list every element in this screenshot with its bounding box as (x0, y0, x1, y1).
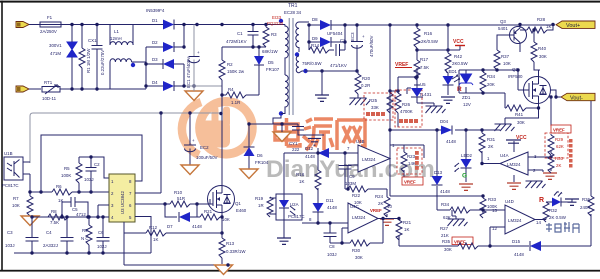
hatched ground Q2 (495, 124, 515, 131)
svg-text:471/1KV: 471/1KV (330, 63, 347, 68)
divider column R29/R30 (549, 95, 552, 171)
LED3 (539, 191, 572, 207)
svg-text:R18: R18 (296, 172, 305, 177)
svg-text:2A/250V: 2A/250V (40, 29, 57, 34)
svg-text:4148: 4148 (514, 252, 524, 257)
svg-text:D9: D9 (312, 36, 318, 41)
svg-text:D8: D8 (312, 17, 318, 22)
wire (551, 97, 561, 101)
wire AC top (65, 24, 163, 26)
svg-text:VCC: VCC (516, 135, 527, 141)
svg-text:U5: U5 (420, 82, 426, 87)
svg-text:C6: C6 (98, 230, 104, 235)
red dashed box divider (545, 133, 568, 158)
resistor R31 (479, 130, 496, 163)
svg-text:10: 10 (387, 204, 392, 209)
diode D6 (up) + feed (244, 111, 284, 169)
resistor R37 (494, 35, 511, 70)
bottom rail left (14, 252, 151, 254)
FB node wire (30, 191, 52, 193)
svg-text:LED2: LED2 (461, 153, 473, 158)
bridge verticals secondary (309, 25, 345, 50)
junction dots (251, 45, 260, 48)
svg-text:D7: D7 (167, 224, 173, 229)
svg-text:20K: 20K (487, 82, 495, 87)
svg-text:470uF/50V: 470uF/50V (369, 35, 374, 57)
junction dots (346, 187, 349, 190)
capacitor C3 (5, 217, 39, 253)
svg-text:10K: 10K (12, 203, 20, 208)
resistor R34 (441, 202, 470, 220)
svg-text:62K: 62K (443, 215, 451, 220)
svg-text:U4A: U4A (500, 153, 509, 158)
terminal Vout- (561, 93, 595, 101)
svg-text:R40: R40 (538, 46, 547, 51)
resistor R25 (369, 93, 393, 113)
svg-text:R3: R3 (271, 32, 277, 37)
svg-text:FR107: FR107 (266, 67, 280, 72)
svg-text:L1: L1 (114, 29, 119, 34)
svg-text:222: 222 (292, 147, 300, 152)
svg-text:2K: 2K (556, 163, 561, 168)
R36 column (580, 101, 594, 246)
junction dots (340, 217, 384, 245)
capacitor C7 (330, 38, 347, 68)
svg-text:U4D: U4D (505, 199, 514, 204)
svg-text:D4: D4 (152, 80, 158, 85)
svg-text:30K: 30K (517, 120, 525, 125)
source wire (221, 213, 223, 234)
svg-text:R12: R12 (149, 225, 158, 230)
svg-text:30K: 30K (355, 255, 363, 260)
svg-text:U1B: U1B (4, 151, 13, 156)
svg-text:0.2R: 0.2R (361, 83, 370, 88)
junction dots (518, 23, 554, 26)
svg-text:R29: R29 (555, 137, 564, 142)
resistor R17 (398, 57, 429, 88)
svg-text:21K: 21K (441, 233, 449, 238)
svg-text:EC3: EC3 (350, 32, 355, 41)
resistor R41 (505, 105, 540, 125)
svg-text:LM324: LM324 (362, 157, 376, 162)
capacitor C5 (62, 197, 88, 217)
svg-text:+: + (362, 34, 365, 39)
svg-text:D3: D3 (152, 57, 158, 62)
resistor R42 (445, 25, 468, 76)
hatched ground R27 (448, 219, 468, 226)
svg-text:N C: N C (81, 236, 89, 241)
svg-text:+: + (192, 138, 195, 143)
svg-text:10K: 10K (503, 61, 511, 66)
secondary winding upper (296, 22, 299, 52)
svg-text:VCC: VCC (453, 39, 464, 45)
resistor R28 (520, 17, 553, 33)
D13 column (436, 130, 438, 210)
output wire left (482, 163, 500, 165)
capacitor EC3 (350, 25, 374, 71)
resistor R29 (548, 135, 564, 155)
svg-text:IN5399*4: IN5399*4 (146, 8, 165, 13)
core (289, 18, 293, 115)
resistor R30b (548, 153, 564, 173)
svg-text:TR1: TR1 (288, 3, 298, 9)
svg-text:0.22uF/275V: 0.22uF/275V (100, 50, 105, 75)
svg-text:1K: 1K (299, 179, 304, 184)
primary winding lower (aux) (281, 75, 288, 114)
svg-text:62K: 62K (556, 144, 564, 149)
pin4 timing wire (32, 216, 109, 218)
VREF label top (395, 62, 412, 68)
svg-text:1K: 1K (546, 24, 551, 29)
dashed box R25 (364, 93, 393, 120)
rail R25 from +V (389, 25, 391, 145)
clamp bottom rail (222, 47, 266, 56)
diode D3 (points left) (146, 57, 184, 69)
terminal N (16, 86, 29, 92)
resistor R26 (390, 77, 413, 127)
ground under R13 (215, 265, 233, 275)
svg-text:R8: R8 (51, 209, 57, 214)
wire (537, 70, 540, 77)
resistor R21 gate (197, 209, 230, 222)
drain wire (221, 95, 223, 186)
svg-text:Vout-: Vout- (570, 96, 583, 102)
svg-text:EI33: EI33 (272, 15, 282, 20)
svg-text:12V: 12V (463, 102, 471, 107)
wire (29, 24, 38, 26)
svg-text:R9: R9 (82, 228, 88, 233)
junction dots (101, 215, 104, 218)
svg-text:Q2: Q2 (512, 67, 518, 72)
junction dots (480, 162, 483, 165)
junction dots (220, 215, 223, 234)
svg-text:R37: R37 (501, 54, 510, 59)
capacitor CY1 (289, 124, 306, 152)
resistor R1 (79, 25, 91, 90)
svg-text:R4: R4 (228, 87, 234, 92)
svg-text:C3: C3 (7, 230, 13, 235)
svg-text:7.5K: 7.5K (50, 220, 59, 225)
svg-text:D12: D12 (305, 146, 314, 151)
svg-text:R33: R33 (488, 197, 497, 202)
junction dots (163, 202, 198, 205)
svg-text:R26: R26 (402, 102, 411, 107)
svg-text:2K: 2K (378, 201, 383, 206)
VREF loop rectangle (41, 135, 142, 192)
wire (284, 60, 286, 75)
LED1 (443, 69, 463, 95)
diode D11 (down) (313, 198, 338, 223)
svg-text:VREF: VREF (553, 128, 565, 133)
layered ground right of CY1 (306, 135, 324, 145)
svg-text:75R/0.5W: 75R/0.5W (302, 61, 322, 66)
svg-text:Q3: Q3 (500, 19, 506, 24)
svg-text:R20: R20 (362, 76, 371, 81)
svg-text:100K: 100K (61, 173, 71, 178)
svg-text:IRF530: IRF530 (508, 74, 523, 79)
svg-text:R7: R7 (13, 196, 19, 201)
VCC rail gray (30, 113, 221, 163)
wire (110, 59, 132, 89)
wire (299, 21, 309, 23)
svg-text:R32: R32 (549, 208, 558, 213)
svg-text:D5: D5 (268, 60, 274, 65)
svg-text:VREF: VREF (370, 208, 382, 213)
capacitor CX1 (88, 25, 105, 90)
svg-text:LM324: LM324 (508, 218, 522, 223)
diode D4 (146, 80, 194, 91)
svg-text:1R: 1R (258, 203, 264, 208)
capacitor C2 (84, 157, 100, 192)
svg-text:R25: R25 (369, 98, 378, 103)
svg-text:100uF/50V: 100uF/50V (196, 155, 218, 160)
wire (132, 61, 146, 63)
svg-text:R6: R6 (56, 184, 62, 189)
svg-text:PC817C: PC817C (288, 214, 305, 219)
TL431 U5 (407, 82, 432, 103)
MOSFET Q2 (508, 67, 551, 104)
hatched ground TL431 (426, 106, 446, 113)
svg-text:103M: 103M (345, 181, 356, 186)
svg-text:7.5K: 7.5K (420, 65, 429, 70)
svg-text:R19: R19 (255, 196, 264, 201)
hatched ground right (526, 181, 546, 188)
svg-text:D2: D2 (152, 40, 158, 45)
R18 / D11 column (296, 151, 321, 203)
capacitor EC2 (184, 113, 218, 165)
svg-text:0.33R/1W: 0.33R/1W (226, 249, 246, 254)
LED2 column (465, 130, 467, 159)
svg-text:D6: D6 (257, 153, 263, 158)
junction dots (77, 190, 92, 193)
junction dots (30, 215, 99, 218)
wire top rail to transformer (197, 24, 285, 26)
svg-text:TL431: TL431 (419, 92, 432, 97)
diode D04 (440, 119, 456, 144)
svg-text:2A332J: 2A332J (43, 243, 58, 248)
ground under LED1 (441, 97, 455, 103)
svg-text:472M/1KV: 472M/1KV (226, 39, 247, 44)
svg-text:R22: R22 (352, 193, 361, 198)
svg-text:1.1R: 1.1R (231, 100, 240, 105)
resistor R2 (219, 47, 245, 95)
wire (321, 71, 323, 95)
watermark logo plug (212, 107, 219, 127)
resistor R7 (12, 192, 33, 216)
resistor R14 snubber (302, 42, 334, 66)
MOSFET Q1 (208, 186, 247, 214)
svg-text:LED1: LED1 (446, 69, 458, 74)
secondary return wire (305, 70, 358, 72)
junction dots (65, 215, 68, 218)
CY1 rail (249, 123, 298, 125)
watermark logo ring (195, 97, 257, 159)
pin12 wire (490, 227, 505, 246)
svg-text:1K: 1K (153, 237, 158, 242)
terminal Vout+ (556, 21, 595, 29)
svg-text:F1: F1 (47, 15, 53, 20)
svg-text:R24: R24 (375, 194, 384, 199)
svg-text:30K: 30K (539, 54, 547, 59)
diode D1 (152, 18, 197, 30)
svg-text:2K 0.5W: 2K 0.5W (549, 215, 567, 220)
capacitor C8 (324, 221, 337, 257)
diode D13 (down) (432, 170, 451, 194)
watermark logo cord arc (182, 102, 201, 155)
svg-text:R42: R42 (454, 54, 463, 59)
charging indicator text (546, 222, 579, 233)
opamp U4A (points left) (487, 152, 537, 175)
svg-text:2K/0.5W: 2K/0.5W (421, 39, 439, 44)
svg-text:RT1: RT1 (44, 80, 53, 85)
resistor R24 (375, 189, 390, 217)
wire (193, 86, 195, 91)
svg-text:4148: 4148 (440, 189, 450, 194)
resistor R35 (442, 239, 478, 252)
svg-text:103J: 103J (327, 252, 337, 257)
source / Vout- wire (505, 90, 561, 118)
svg-text:103J: 103J (84, 177, 94, 182)
svg-text:R2: R2 (227, 62, 233, 67)
svg-text:G: G (462, 173, 467, 180)
opto U1B (2, 151, 23, 188)
resistor R22 (345, 186, 387, 205)
resistor R34a (480, 70, 496, 93)
svg-text:102J: 102J (97, 244, 107, 249)
resistor R21b (396, 217, 412, 246)
thermistor RT1 (42, 80, 60, 101)
svg-text:D11: D11 (326, 198, 334, 203)
ground under EC2 (181, 165, 199, 175)
svg-text:R17: R17 (420, 57, 429, 62)
gate rail (459, 70, 529, 93)
svg-text:5401: 5401 (498, 26, 508, 31)
junction dots (343, 151, 346, 154)
junction dots (554, 95, 557, 98)
resistor R16 (414, 25, 439, 60)
svg-text:C7: C7 (340, 38, 346, 43)
pin5 wire down (135, 217, 151, 254)
junction dots (495, 68, 519, 71)
svg-text:R23: R23 (407, 154, 416, 159)
svg-text:4700K: 4700K (400, 109, 413, 114)
wire AC bottom (60, 88, 110, 90)
svg-text:C9: C9 (349, 174, 355, 179)
ground (277, 238, 291, 244)
junction dots (388, 128, 483, 131)
svg-text:2K0.5W: 2K0.5W (452, 61, 468, 66)
diode D12 (left) (305, 146, 358, 159)
ground under R7 (21, 216, 39, 226)
fuse F1 (36, 15, 65, 34)
R23 dashed box (390, 145, 424, 178)
resistor R5 (61, 157, 82, 192)
wire (417, 103, 434, 106)
svg-text:C2: C2 (94, 162, 100, 167)
opamp U4D (492, 199, 541, 234)
svg-text:C8: C8 (329, 244, 335, 249)
hatched ground under R20 (350, 98, 370, 105)
svg-text:4148: 4148 (446, 139, 456, 144)
junction dots (220, 93, 223, 96)
junction dots (316, 221, 319, 224)
resistor R9 (81, 217, 92, 253)
watermark CJK dian yuan wang (275, 118, 365, 150)
svg-text:R34: R34 (441, 202, 450, 207)
svg-text:U3 UC3842: U3 UC3842 (120, 191, 125, 214)
svg-text:471M: 471M (50, 51, 61, 56)
svg-text:R36: R36 (582, 197, 591, 202)
output node rail continues (390, 145, 483, 196)
wire (452, 210, 456, 219)
junction dots (28, 190, 42, 193)
capacitor C4 (43, 217, 74, 253)
svg-text:CY1: CY1 (289, 141, 298, 146)
ground triangle CY1 (273, 132, 291, 142)
svg-text:R28: R28 (537, 17, 546, 22)
junction dots (226, 263, 229, 266)
junction dots (481, 68, 484, 94)
svg-text:E460: E460 (236, 208, 247, 213)
svg-text:ZD1: ZD1 (462, 95, 471, 100)
junction dots (388, 23, 399, 92)
ground (565, 199, 579, 205)
svg-text:R5: R5 (64, 166, 70, 171)
svg-text:D04: D04 (440, 119, 449, 124)
wire to D15 (399, 245, 591, 247)
D04 wire (390, 129, 500, 131)
junction dots (488, 244, 491, 247)
svg-text:68K/1W: 68K/1W (262, 49, 278, 54)
svg-text:D13: D13 (434, 170, 443, 175)
svg-text:LM324: LM324 (507, 162, 521, 167)
svg-text:FR104: FR104 (255, 160, 269, 165)
bridge vertical wires (146, 25, 184, 90)
opamp U4C (348, 203, 378, 233)
svg-text:D1: D1 (152, 18, 158, 23)
bottom rail (459, 93, 505, 108)
capacitor C1 (226, 25, 259, 48)
comp top wire (79, 157, 109, 178)
svg-text:R10: R10 (174, 190, 183, 195)
ground (543, 173, 557, 179)
IC ground drop (124, 222, 228, 265)
ground under LED2 (459, 184, 473, 190)
svg-text:R34: R34 (487, 74, 496, 79)
ground IEC secondary (315, 95, 329, 101)
svg-text:R13: R13 (226, 241, 235, 246)
capacitor C6 (97, 217, 110, 253)
resistor R32 (543, 202, 567, 222)
svg-text:2K: 2K (488, 144, 493, 149)
ground after LED3 (571, 199, 573, 202)
primary winding upper (285, 25, 288, 61)
pin7 VCC wire (135, 113, 161, 193)
wire (281, 124, 283, 132)
resistor R12 (124, 225, 222, 242)
junction dots (220, 23, 267, 26)
svg-text:240K: 240K (580, 205, 590, 210)
svg-text:R30: R30 (555, 156, 564, 161)
R19 parallel opto (255, 196, 276, 217)
svg-text:10D-11: 10D-11 (42, 96, 57, 101)
svg-text:U4C: U4C (350, 204, 359, 209)
capacitor C9 (339, 153, 357, 189)
VREF boxed right (551, 125, 571, 133)
junction dots (30, 251, 104, 254)
junction dots (307, 23, 346, 43)
junction dots (144, 23, 198, 88)
